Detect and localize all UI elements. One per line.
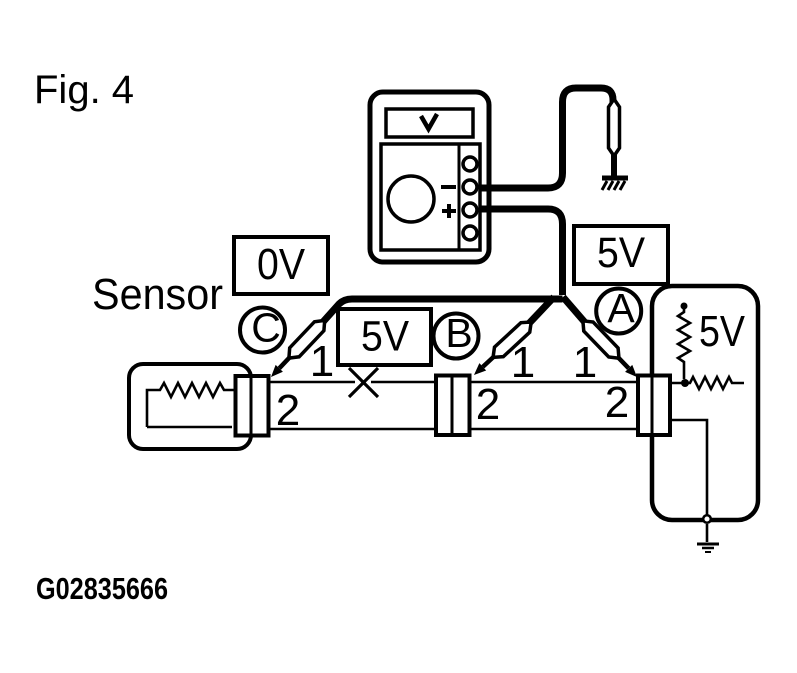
- svg-text:2: 2: [605, 378, 629, 427]
- svg-text:G02835666: G02835666: [36, 571, 168, 606]
- svg-text:1: 1: [310, 337, 334, 386]
- svg-text:Fig. 4: Fig. 4: [34, 68, 134, 112]
- svg-text:A: A: [607, 285, 635, 331]
- svg-text:2: 2: [276, 386, 300, 435]
- svg-text:2: 2: [476, 380, 500, 429]
- svg-text:0V: 0V: [257, 240, 306, 289]
- svg-text:C: C: [251, 305, 281, 351]
- svg-text:1: 1: [511, 338, 535, 387]
- svg-text:5V: 5V: [699, 307, 746, 356]
- svg-text:5V: 5V: [361, 313, 409, 361]
- svg-text:Sensor: Sensor: [92, 270, 223, 319]
- svg-text:B: B: [445, 310, 472, 356]
- svg-text:5V: 5V: [597, 229, 645, 277]
- svg-text:1: 1: [573, 338, 597, 387]
